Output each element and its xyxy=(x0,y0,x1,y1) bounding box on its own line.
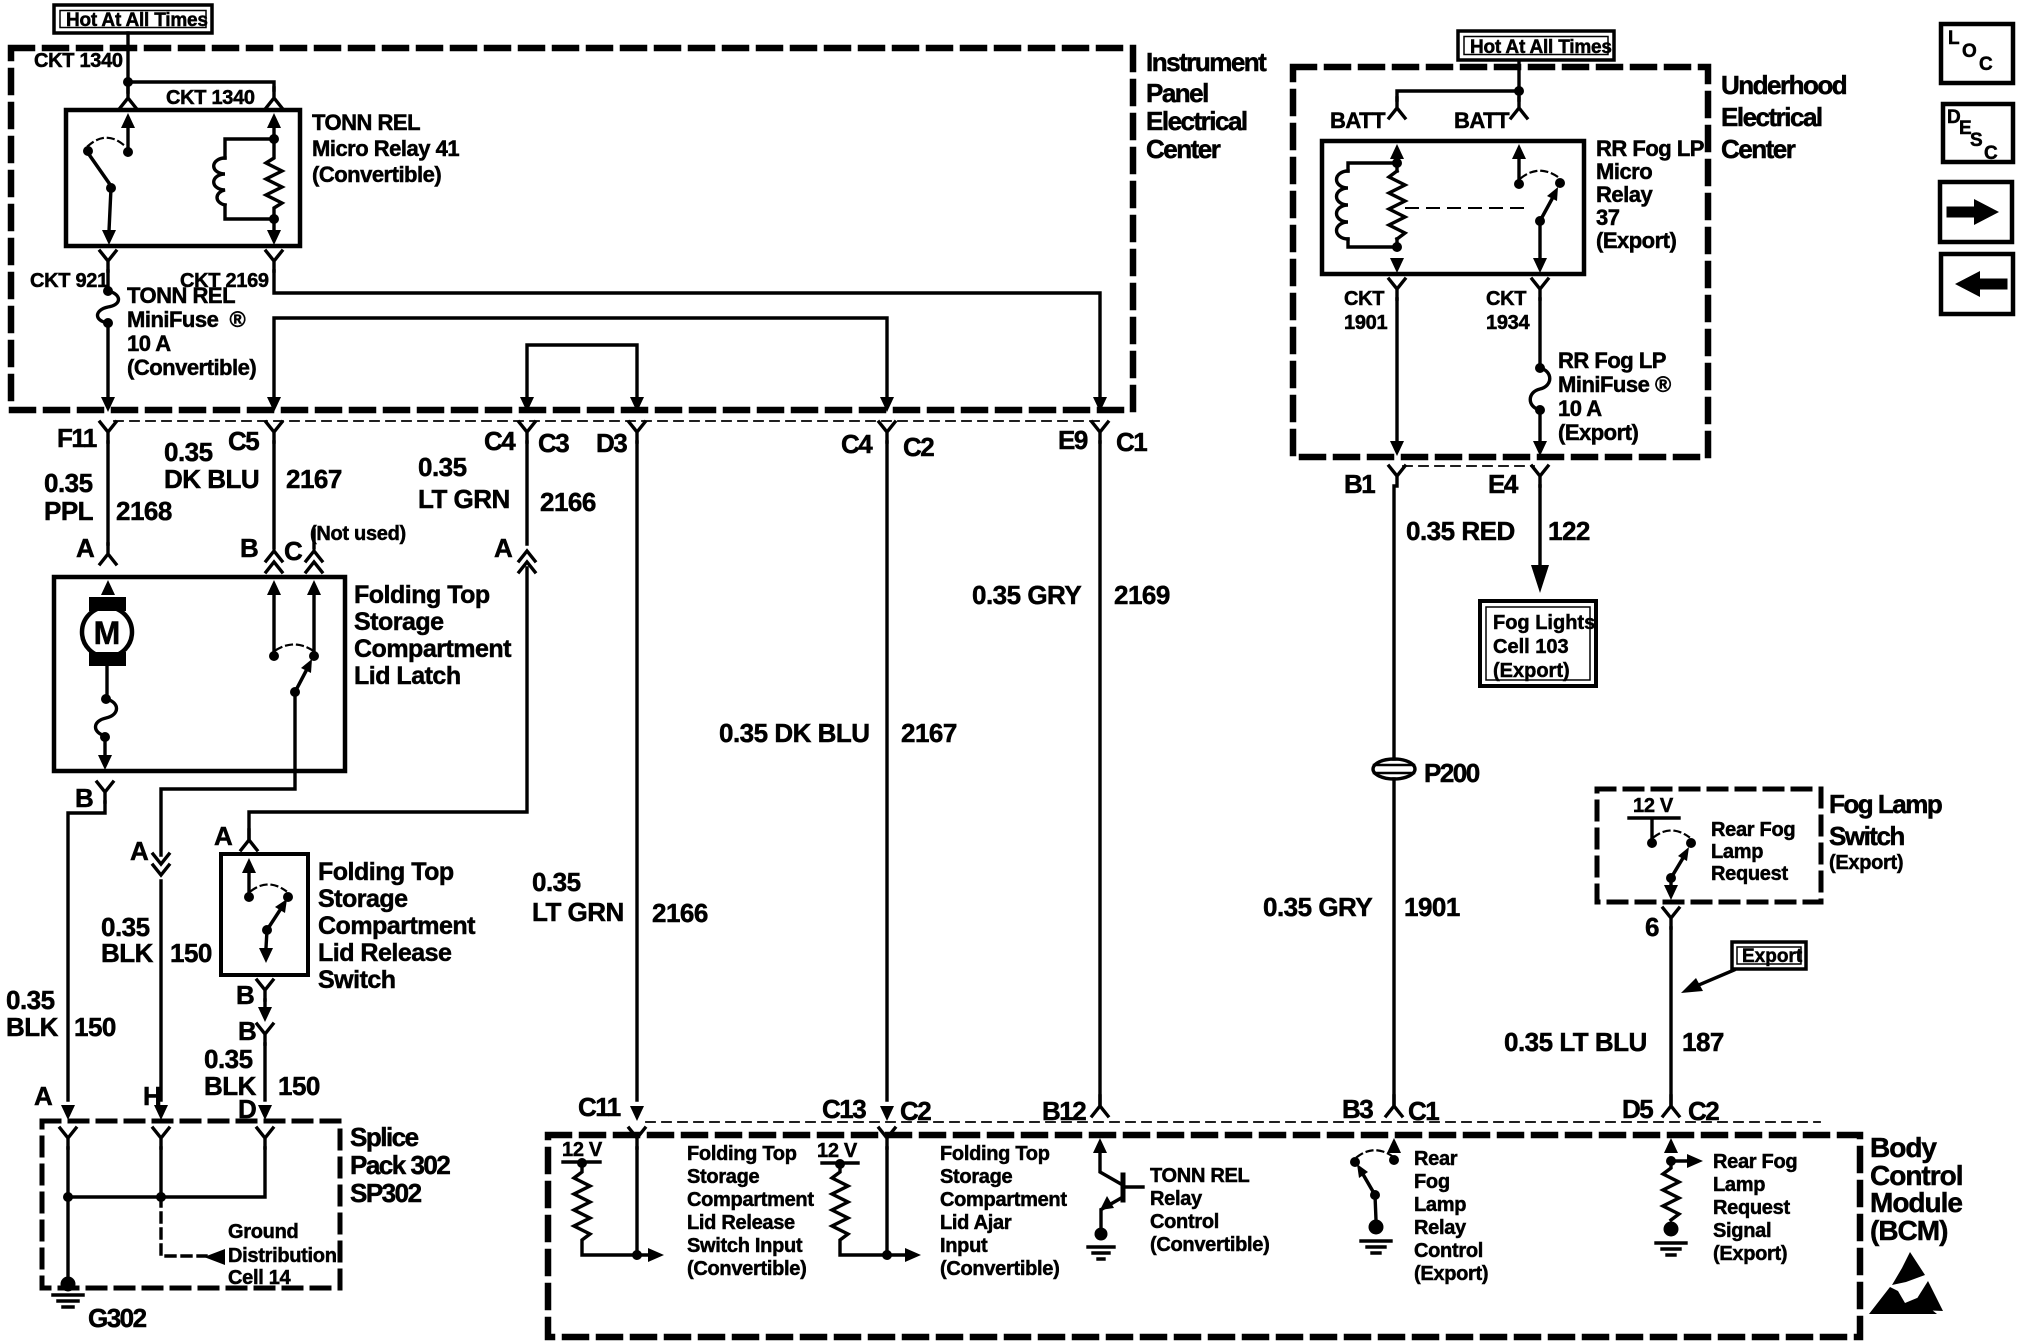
svg-text:C4: C4 xyxy=(484,426,516,456)
svg-text:B: B xyxy=(238,1016,256,1046)
svg-text:Input: Input xyxy=(940,1235,988,1257)
connector: relay 41 pin (coil input) xyxy=(266,88,282,128)
label: C (latch pin) + (Not used) xyxy=(284,523,406,566)
svg-text:Lid Release: Lid Release xyxy=(687,1212,795,1234)
wire: CKT 2169 from relay coil xyxy=(266,230,1100,399)
relay 37 actuation dashed line xyxy=(1406,207,1528,209)
svg-text:Control: Control xyxy=(1150,1211,1219,1233)
motor M: lid latch motor xyxy=(82,597,132,666)
svg-text:Switch: Switch xyxy=(1829,821,1904,851)
wire: BATT branch xyxy=(1397,91,1519,100)
svg-text:2168: 2168 xyxy=(116,496,172,526)
svg-text:2167: 2167 xyxy=(286,464,342,494)
svg-text:C: C xyxy=(284,536,303,566)
labels: C4 C2 xyxy=(841,429,934,462)
label: Rear Fog Lamp Request Signal (Export) xyxy=(1713,1151,1797,1265)
relay 37 switch contact nodes xyxy=(1514,178,1565,189)
svg-text:Lamp: Lamp xyxy=(1414,1194,1466,1216)
relay K41 TONN REL Micro Relay 41 box xyxy=(66,110,300,246)
svg-text:2169: 2169 xyxy=(1114,580,1170,610)
wire: CKT 1934 to fuse xyxy=(1538,299,1541,366)
svg-text:0.35 DK BLU: 0.35 DK BLU xyxy=(719,718,870,748)
ground: rear fog lamp relay control xyxy=(1361,1220,1391,1254)
svg-text:LT GRN: LT GRN xyxy=(418,484,510,514)
BCM switch actuation dashed arc xyxy=(1357,1150,1392,1157)
svg-text:C13: C13 xyxy=(822,1094,866,1124)
svg-text:Signal: Signal xyxy=(1713,1220,1771,1242)
svg-text:CKT 1340: CKT 1340 xyxy=(166,87,255,109)
node: C13 junction xyxy=(882,1250,892,1260)
svg-text:1901: 1901 xyxy=(1404,892,1460,922)
svg-text:0.35 GRY: 0.35 GRY xyxy=(1263,892,1372,922)
svg-text:S: S xyxy=(1970,130,1983,151)
svg-text:Control: Control xyxy=(1414,1240,1483,1262)
wire: relay 41 coil output xyxy=(272,219,275,231)
wire: fog lamp switch output xyxy=(1664,878,1678,900)
svg-text:0.35: 0.35 xyxy=(44,468,93,498)
svg-text:2167: 2167 xyxy=(901,718,957,748)
fog lamp switch 12V feed bar xyxy=(1629,818,1679,840)
svg-text:CKT 921: CKT 921 xyxy=(30,270,108,292)
connector D3 arrow xyxy=(629,397,645,442)
connector: latch pin B (motor return) xyxy=(97,755,113,802)
reference box: Export xyxy=(1732,942,1806,969)
label: Folding Top Storage Compartment Lid Ajar Input (Convertible) xyxy=(940,1143,1067,1280)
release switch contact nodes xyxy=(244,892,293,902)
svg-text:MiniFuse ®: MiniFuse ® xyxy=(1558,372,1671,397)
latch switch pivot node xyxy=(290,687,300,697)
labels: 0.35 LT GRN 2166 (lower) xyxy=(532,867,708,928)
label: Ground Distribution Cell 14 xyxy=(228,1221,337,1289)
svg-text:(Export): (Export) xyxy=(1713,1243,1787,1265)
svg-text:C1: C1 xyxy=(1116,427,1147,457)
svg-text:BLK: BLK xyxy=(101,938,154,968)
wire: stub above latch pin C xyxy=(312,530,315,548)
wire: BCM switch to ground xyxy=(1375,1195,1376,1220)
svg-text:Module: Module xyxy=(1870,1187,1962,1218)
label: TONN REL MiniFuse (R) 10 A (Convertible) xyxy=(127,283,256,380)
relay 41 coil feed wire xyxy=(272,128,275,139)
svg-text:Lid Release: Lid Release xyxy=(318,939,452,967)
wire: underhood hot feed xyxy=(1517,62,1520,91)
svg-text:B: B xyxy=(240,533,258,563)
wire: jumper C5 to C4 xyxy=(274,318,887,400)
svg-text:10 A: 10 A xyxy=(1558,396,1602,421)
latch switch actuation dashed arc xyxy=(276,645,312,651)
svg-text:0.35: 0.35 xyxy=(6,985,55,1015)
wire: CKT 921 fuse to F11 xyxy=(106,323,109,398)
wire: fuse to E4 xyxy=(1538,410,1541,442)
svg-text:(Convertible): (Convertible) xyxy=(312,162,441,187)
relay 37 coil junction nodes xyxy=(1392,158,1402,252)
labels: 0.35 DK BLU 2167 xyxy=(164,437,342,494)
svg-text:Relay: Relay xyxy=(1150,1188,1203,1210)
svg-text:BATT: BATT xyxy=(1454,108,1510,133)
wire: 0.35 BLK 150 (to splice H) xyxy=(159,881,162,1100)
svg-text:2166: 2166 xyxy=(540,487,596,517)
svg-text:A: A xyxy=(494,533,513,563)
relay 37 switch pivot node xyxy=(1535,216,1545,226)
svg-text:B: B xyxy=(236,980,254,1010)
connector E4 xyxy=(1532,441,1548,486)
connector: latch pin C chevrons xyxy=(306,551,322,572)
latch switch: input wires from B and C xyxy=(267,580,321,653)
connector: relay 37 coil output CKT 1901 xyxy=(1389,258,1405,299)
title: Splice Pack 302 SP302 xyxy=(350,1122,450,1208)
svg-text:0.35 GRY: 0.35 GRY xyxy=(972,580,1081,610)
svg-text:Lamp: Lamp xyxy=(1711,841,1763,863)
svg-text:O: O xyxy=(1962,41,1977,62)
svg-text:1934: 1934 xyxy=(1486,312,1530,334)
labels: 0.35 RED 122 xyxy=(1406,516,1590,546)
relay 37 coil rails xyxy=(1348,163,1397,247)
node: CKT 1340 junction xyxy=(123,77,133,87)
svg-text:Compartment: Compartment xyxy=(940,1189,1067,1211)
svg-text:Hot At All Times: Hot At All Times xyxy=(66,10,208,31)
svg-text:BLK: BLK xyxy=(6,1012,59,1042)
wire: relay 41 switch output xyxy=(109,188,111,231)
relay 41 coil rails xyxy=(225,139,274,219)
motor breaker: wire and S element xyxy=(96,666,117,756)
svg-text:C11: C11 xyxy=(578,1092,621,1122)
label: Rear Fog Lamp Request (switch function) xyxy=(1711,819,1795,885)
labels: 0.35 BLK 150 (D wire) xyxy=(204,1044,320,1101)
Folding Top Storage Compartment Lid Release Switch box xyxy=(221,854,308,975)
wire: 0.35 DK BLU 2167 (C2 to BCM C13) xyxy=(885,442,888,1100)
connector F11 xyxy=(100,397,116,442)
label: RR Fog LP MiniFuse (R) 10 A (Export) xyxy=(1558,348,1671,445)
labels: 0.35 BLK 150 (H wire) xyxy=(101,912,212,968)
BCM rear fog lamp request input node xyxy=(1666,1156,1676,1166)
svg-text:D5: D5 xyxy=(1622,1094,1653,1124)
svg-text:Electrical: Electrical xyxy=(1146,106,1247,136)
relay 37 switch input wire xyxy=(1517,159,1520,181)
svg-text:C4: C4 xyxy=(841,429,873,459)
svg-text:Relay: Relay xyxy=(1414,1217,1467,1239)
reference box: Fog Lights Cell 103 (Export) xyxy=(1480,601,1596,686)
svg-text:Compartment: Compartment xyxy=(687,1189,814,1211)
connector C5 arrow xyxy=(266,397,282,442)
svg-text:LT GRN: LT GRN xyxy=(532,897,624,927)
svg-text:Lamp: Lamp xyxy=(1713,1174,1765,1196)
svg-text:Folding Top: Folding Top xyxy=(940,1143,1050,1165)
labels: B3 C1 xyxy=(1342,1094,1439,1126)
connector B1 xyxy=(1389,441,1405,486)
connector: relay 37 coil BATT pin xyxy=(1389,98,1405,159)
svg-text:Export: Export xyxy=(1742,946,1803,967)
connector: splice pin A xyxy=(60,1105,76,1148)
svg-text:37: 37 xyxy=(1596,205,1620,230)
svg-text:C3: C3 xyxy=(538,428,569,458)
svg-text:0.35 LT BLU: 0.35 LT BLU xyxy=(1504,1027,1647,1057)
labels: E9 C1 xyxy=(1058,425,1147,457)
latch switch contact nodes xyxy=(269,651,319,661)
ground G302 xyxy=(53,1277,83,1308)
labels: A H D (splice pack pins) xyxy=(34,1081,256,1124)
connector: fog lamp switch pin 6 xyxy=(1663,908,1679,928)
wire: 0.35 GRY 1901 (P200 to BCM B3) xyxy=(1392,779,1395,1104)
wire: 0.35 LT BLU 187 (to BCM D5) xyxy=(1669,928,1672,1104)
wire: 0.35 BLK 150 (to splice D) xyxy=(263,1044,266,1100)
svg-text:Request: Request xyxy=(1713,1197,1790,1219)
BCM 12V pullup (C11): bar and resistor xyxy=(563,1158,664,1262)
labels: BATT BATT xyxy=(1330,108,1510,133)
svg-text:CKT 2169: CKT 2169 xyxy=(180,270,269,292)
wire: C11 into BCM xyxy=(635,1148,638,1255)
connector: relay 41 pin (switch input) xyxy=(120,88,136,128)
svg-text:Cell 14: Cell 14 xyxy=(228,1267,292,1289)
connector: latch pin A xyxy=(100,544,116,595)
label box: Hot At All Times (underhood) xyxy=(1458,31,1614,60)
Body Control Module dashed boundary xyxy=(548,1135,1860,1337)
ground distribution dashed reference path xyxy=(161,1197,206,1256)
relay 41 switch contact nodes xyxy=(83,146,133,157)
Underhood Electrical Center dashed boundary xyxy=(1293,67,1708,457)
relay 37 coil feed wire xyxy=(1395,159,1398,163)
legend box: LOC xyxy=(1941,24,2013,83)
svg-text:0.35: 0.35 xyxy=(532,867,581,897)
svg-text:PPL: PPL xyxy=(44,496,94,526)
wire: CKT 921 to fuse xyxy=(106,271,109,290)
svg-text:Relay: Relay xyxy=(1596,182,1653,207)
svg-text:Instrument: Instrument xyxy=(1146,47,1267,77)
svg-text:(Convertible): (Convertible) xyxy=(1150,1234,1269,1256)
svg-text:Storage: Storage xyxy=(687,1166,760,1188)
fuse F1: TONN REL MiniFuse 10A xyxy=(98,286,119,328)
svg-text:C: C xyxy=(1984,143,1998,164)
relay 37 switch blade with arrow xyxy=(1540,187,1558,221)
svg-text:Ground: Ground xyxy=(228,1221,298,1243)
relay 41 switch pivot node xyxy=(106,183,116,193)
connector: inline A on BLK 150 xyxy=(153,854,169,875)
svg-text:187: 187 xyxy=(1682,1027,1724,1057)
svg-text:1901: 1901 xyxy=(1344,312,1387,334)
svg-text:Distribution: Distribution xyxy=(228,1245,337,1267)
svg-text:F11: F11 xyxy=(57,423,97,453)
svg-text:150: 150 xyxy=(170,938,212,968)
svg-text:Rear Fog: Rear Fog xyxy=(1713,1151,1797,1173)
connector BCM C11 xyxy=(629,1106,645,1148)
labels: 0.35 BLK 150 (A wire) xyxy=(6,985,116,1042)
connector: release switch pin B xyxy=(257,980,273,1000)
svg-text:A: A xyxy=(130,836,149,866)
svg-text:Folding Top: Folding Top xyxy=(354,581,490,609)
labels: CKT 1901 xyxy=(1344,288,1387,334)
svg-text:Storage: Storage xyxy=(354,608,444,636)
thin connector line (BCM top) xyxy=(646,1121,1820,1123)
relay 41 switch blade xyxy=(88,153,111,186)
svg-text:(Export): (Export) xyxy=(1493,660,1570,682)
release switch blade with arrow xyxy=(267,899,287,930)
labels: 0.35 PPL 2168 xyxy=(44,468,172,526)
node: C11 junction xyxy=(632,1250,642,1260)
svg-text:E4: E4 xyxy=(1488,469,1519,499)
connector: relay 37 switch output CKT 1934 xyxy=(1532,258,1548,299)
svg-text:(Not used): (Not used) xyxy=(310,523,406,545)
svg-text:C5: C5 xyxy=(228,426,259,456)
connector: relay 41 output terminal xyxy=(100,230,116,271)
label box: Hot At All Times (instrument panel) xyxy=(54,5,212,33)
wire: transistor emitter to ground xyxy=(1099,1210,1102,1228)
svg-text:TONN REL: TONN REL xyxy=(312,110,420,135)
relay K37 RR Fog LP Micro Relay box xyxy=(1322,141,1584,274)
svg-text:Pack 302: Pack 302 xyxy=(350,1150,450,1180)
wire: jumper C4 to D3 xyxy=(527,345,637,400)
svg-text:Splice: Splice xyxy=(350,1122,419,1152)
svg-text:0.35 RED: 0.35 RED xyxy=(1406,516,1515,546)
connector: splice pin D xyxy=(257,1105,273,1148)
svg-text:Rear: Rear xyxy=(1414,1148,1458,1170)
BCM switch pivot node xyxy=(1370,1190,1380,1200)
wire: 0.35 DK BLU 2167 (C5 to latch B) xyxy=(272,442,275,548)
svg-text:Hot At All Times: Hot At All Times xyxy=(1470,37,1612,58)
label: Rear Fog Lamp Relay Control (Export) xyxy=(1414,1148,1488,1285)
relay 37 coil winding xyxy=(1337,171,1349,239)
connector: latch pin B chevrons xyxy=(266,551,282,572)
wire: release switch output xyxy=(259,930,273,963)
ground: rear fog lamp request signal xyxy=(1656,1222,1686,1256)
svg-text:12 V: 12 V xyxy=(1633,795,1674,817)
svg-text:Panel: Panel xyxy=(1146,78,1208,108)
labels: 0.35 LT BLU 187 xyxy=(1504,1027,1724,1057)
svg-text:RR Fog LP: RR Fog LP xyxy=(1558,348,1666,373)
wire: 0.35 GRY 1901 (B1 to P200) xyxy=(1392,486,1395,759)
label: RR Fog LP Micro Relay 37 (Export) xyxy=(1596,136,1704,253)
svg-text:Compartment: Compartment xyxy=(318,912,476,940)
connector: inline A on LT GRN xyxy=(519,551,535,572)
wire: 0.35 LT GRN 2166 (D3 to BCM C11) xyxy=(635,442,638,1100)
thin connector line (underhood bottom) xyxy=(1403,465,1534,467)
wire: 0.35 LT GRN 2166 (C3 to release switch) xyxy=(249,442,527,838)
svg-text:RR Fog LP: RR Fog LP xyxy=(1596,136,1704,161)
connector BCM D5/C2 xyxy=(1663,1096,1679,1153)
wire: splice to ground xyxy=(66,1197,69,1280)
svg-text:Storage: Storage xyxy=(940,1166,1013,1188)
svg-text:Micro: Micro xyxy=(1596,159,1652,184)
wire: CKT 1340 branch to coil xyxy=(128,82,274,92)
splice bus junction nodes xyxy=(63,1192,166,1202)
svg-text:SP302: SP302 xyxy=(350,1178,422,1208)
svg-text:CKT: CKT xyxy=(1486,288,1526,310)
ground: TONN REL relay control xyxy=(1088,1228,1114,1260)
svg-text:0.35: 0.35 xyxy=(418,452,467,482)
wire: latch switch output to H xyxy=(161,692,295,855)
svg-text:(Export): (Export) xyxy=(1596,228,1677,253)
svg-text:Electrical: Electrical xyxy=(1721,102,1822,132)
svg-text:P200: P200 xyxy=(1424,758,1480,788)
connector: splice pin H xyxy=(153,1105,169,1148)
wire: 0.35 GRY 2169 (C1 to BCM B12) xyxy=(1098,442,1101,1104)
svg-text:B3: B3 xyxy=(1342,1094,1373,1124)
label: TONN REL Micro Relay 41 (Convertible) xyxy=(312,110,459,187)
wire: 0.35 PPL 2168 (F11 to latch A) xyxy=(106,442,109,544)
connector BCM B3/C1 xyxy=(1386,1096,1402,1153)
resistor R1: rear fog lamp request pulldown xyxy=(1663,1161,1679,1220)
svg-text:Fog Lights: Fog Lights xyxy=(1493,612,1595,634)
svg-text:B: B xyxy=(75,783,93,813)
fog lamp switch pivot node xyxy=(1666,873,1676,883)
wire: CKT 1901 to B1 xyxy=(1395,299,1398,442)
BCM switch contact node xyxy=(1350,1157,1360,1167)
svg-text:D3: D3 xyxy=(596,428,627,458)
fog lamp switch contact nodes xyxy=(1647,838,1696,848)
fog lamp switch actuation dashed arc xyxy=(1654,831,1689,838)
svg-text:Switch: Switch xyxy=(318,966,396,994)
svg-text:E9: E9 xyxy=(1058,425,1088,455)
wire: 0.35 BLK 150 (motor B to splice A) xyxy=(68,802,105,1100)
svg-text:(Convertible): (Convertible) xyxy=(687,1258,806,1280)
title: Folding Top Storage Compartment Lid Latch xyxy=(354,581,512,690)
connector: release switch pin A xyxy=(241,830,257,873)
relay 41 switch actuation dashed arc xyxy=(88,138,126,147)
svg-text:Body: Body xyxy=(1870,1132,1937,1163)
svg-text:(Export): (Export) xyxy=(1829,852,1903,874)
wire: hot feed CKT 1340 vertical xyxy=(126,33,129,82)
label: TONN REL Relay Control (Convertible) xyxy=(1150,1165,1269,1256)
svg-text:CKT 1340: CKT 1340 xyxy=(34,50,123,72)
relay 41 switch: input wire xyxy=(126,128,129,150)
svg-text:Storage: Storage xyxy=(318,885,408,913)
svg-text:Switch Input: Switch Input xyxy=(687,1235,803,1257)
connector BCM C13/C2 xyxy=(879,1106,895,1148)
svg-text:(Convertible): (Convertible) xyxy=(940,1258,1059,1280)
release switch pivot node xyxy=(262,925,272,935)
labels: 0.35 LT GRN 2166 xyxy=(418,452,596,517)
svg-text:0.35: 0.35 xyxy=(204,1044,253,1074)
svg-text:0.35: 0.35 xyxy=(164,437,213,467)
latch switch blade with arrow xyxy=(295,659,312,692)
svg-text:Folding Top: Folding Top xyxy=(318,858,454,886)
wire: 0.35 RED 122 to fog lights xyxy=(1531,486,1549,593)
relay 37 coil resistor xyxy=(1389,171,1405,239)
svg-text:Lid Ajar: Lid Ajar xyxy=(940,1212,1012,1234)
Instrument Panel Electrical Center dashed boundary xyxy=(11,48,1133,410)
svg-text:A: A xyxy=(214,821,233,851)
title: Folding Top Storage Compartment Lid Release Switch xyxy=(318,858,476,994)
release switch actuation dashed arc xyxy=(251,885,286,892)
svg-text:Fog: Fog xyxy=(1414,1171,1450,1193)
fog lamp switch blade with arrow xyxy=(1671,847,1689,878)
ESD sensitive device symbol xyxy=(1869,1252,1943,1314)
connector: relay 37 switch BATT pin xyxy=(1511,98,1527,159)
wire: C13 into BCM xyxy=(885,1148,888,1255)
svg-text:(Convertible): (Convertible) xyxy=(127,355,256,380)
svg-text:Micro Relay 41: Micro Relay 41 xyxy=(312,136,459,161)
svg-text:Rear Fog: Rear Fog xyxy=(1711,819,1795,841)
svg-text:Compartment: Compartment xyxy=(354,635,512,663)
ground distribution reference arrow xyxy=(204,1249,225,1265)
svg-text:TONN REL: TONN REL xyxy=(1150,1165,1250,1187)
thin connector line (IP bottom) xyxy=(114,420,1100,422)
title: Instrument Panel Electrical Center xyxy=(1146,47,1267,164)
connector E9/C1 arrow xyxy=(1092,397,1108,442)
label: Folding Top Storage Compartment Lid Release Switch Input (Convertible) xyxy=(687,1143,814,1280)
labels: C4 C3 xyxy=(484,426,569,458)
svg-text:CKT: CKT xyxy=(1344,288,1384,310)
svg-text:2166: 2166 xyxy=(652,898,708,928)
BCM switch blade with arrow xyxy=(1357,1164,1375,1195)
title: Fog Lamp Switch (Export) xyxy=(1829,789,1942,874)
relay 41 coil winding xyxy=(214,158,225,205)
transistor Q1: TONN REL relay driver xyxy=(1100,1153,1143,1210)
wire: splice bus xyxy=(68,1148,265,1197)
legend box: forward arrow xyxy=(1940,182,2012,242)
BCM switch: rear fog lamp relay control input node xyxy=(1389,1155,1399,1165)
BCM 12V pullup (C13): bar and resistor xyxy=(822,1159,921,1262)
title: Body Control Module (BCM) xyxy=(1870,1132,1963,1246)
legend box: DESC xyxy=(1943,104,2013,164)
svg-text:Folding Top: Folding Top xyxy=(687,1143,797,1165)
